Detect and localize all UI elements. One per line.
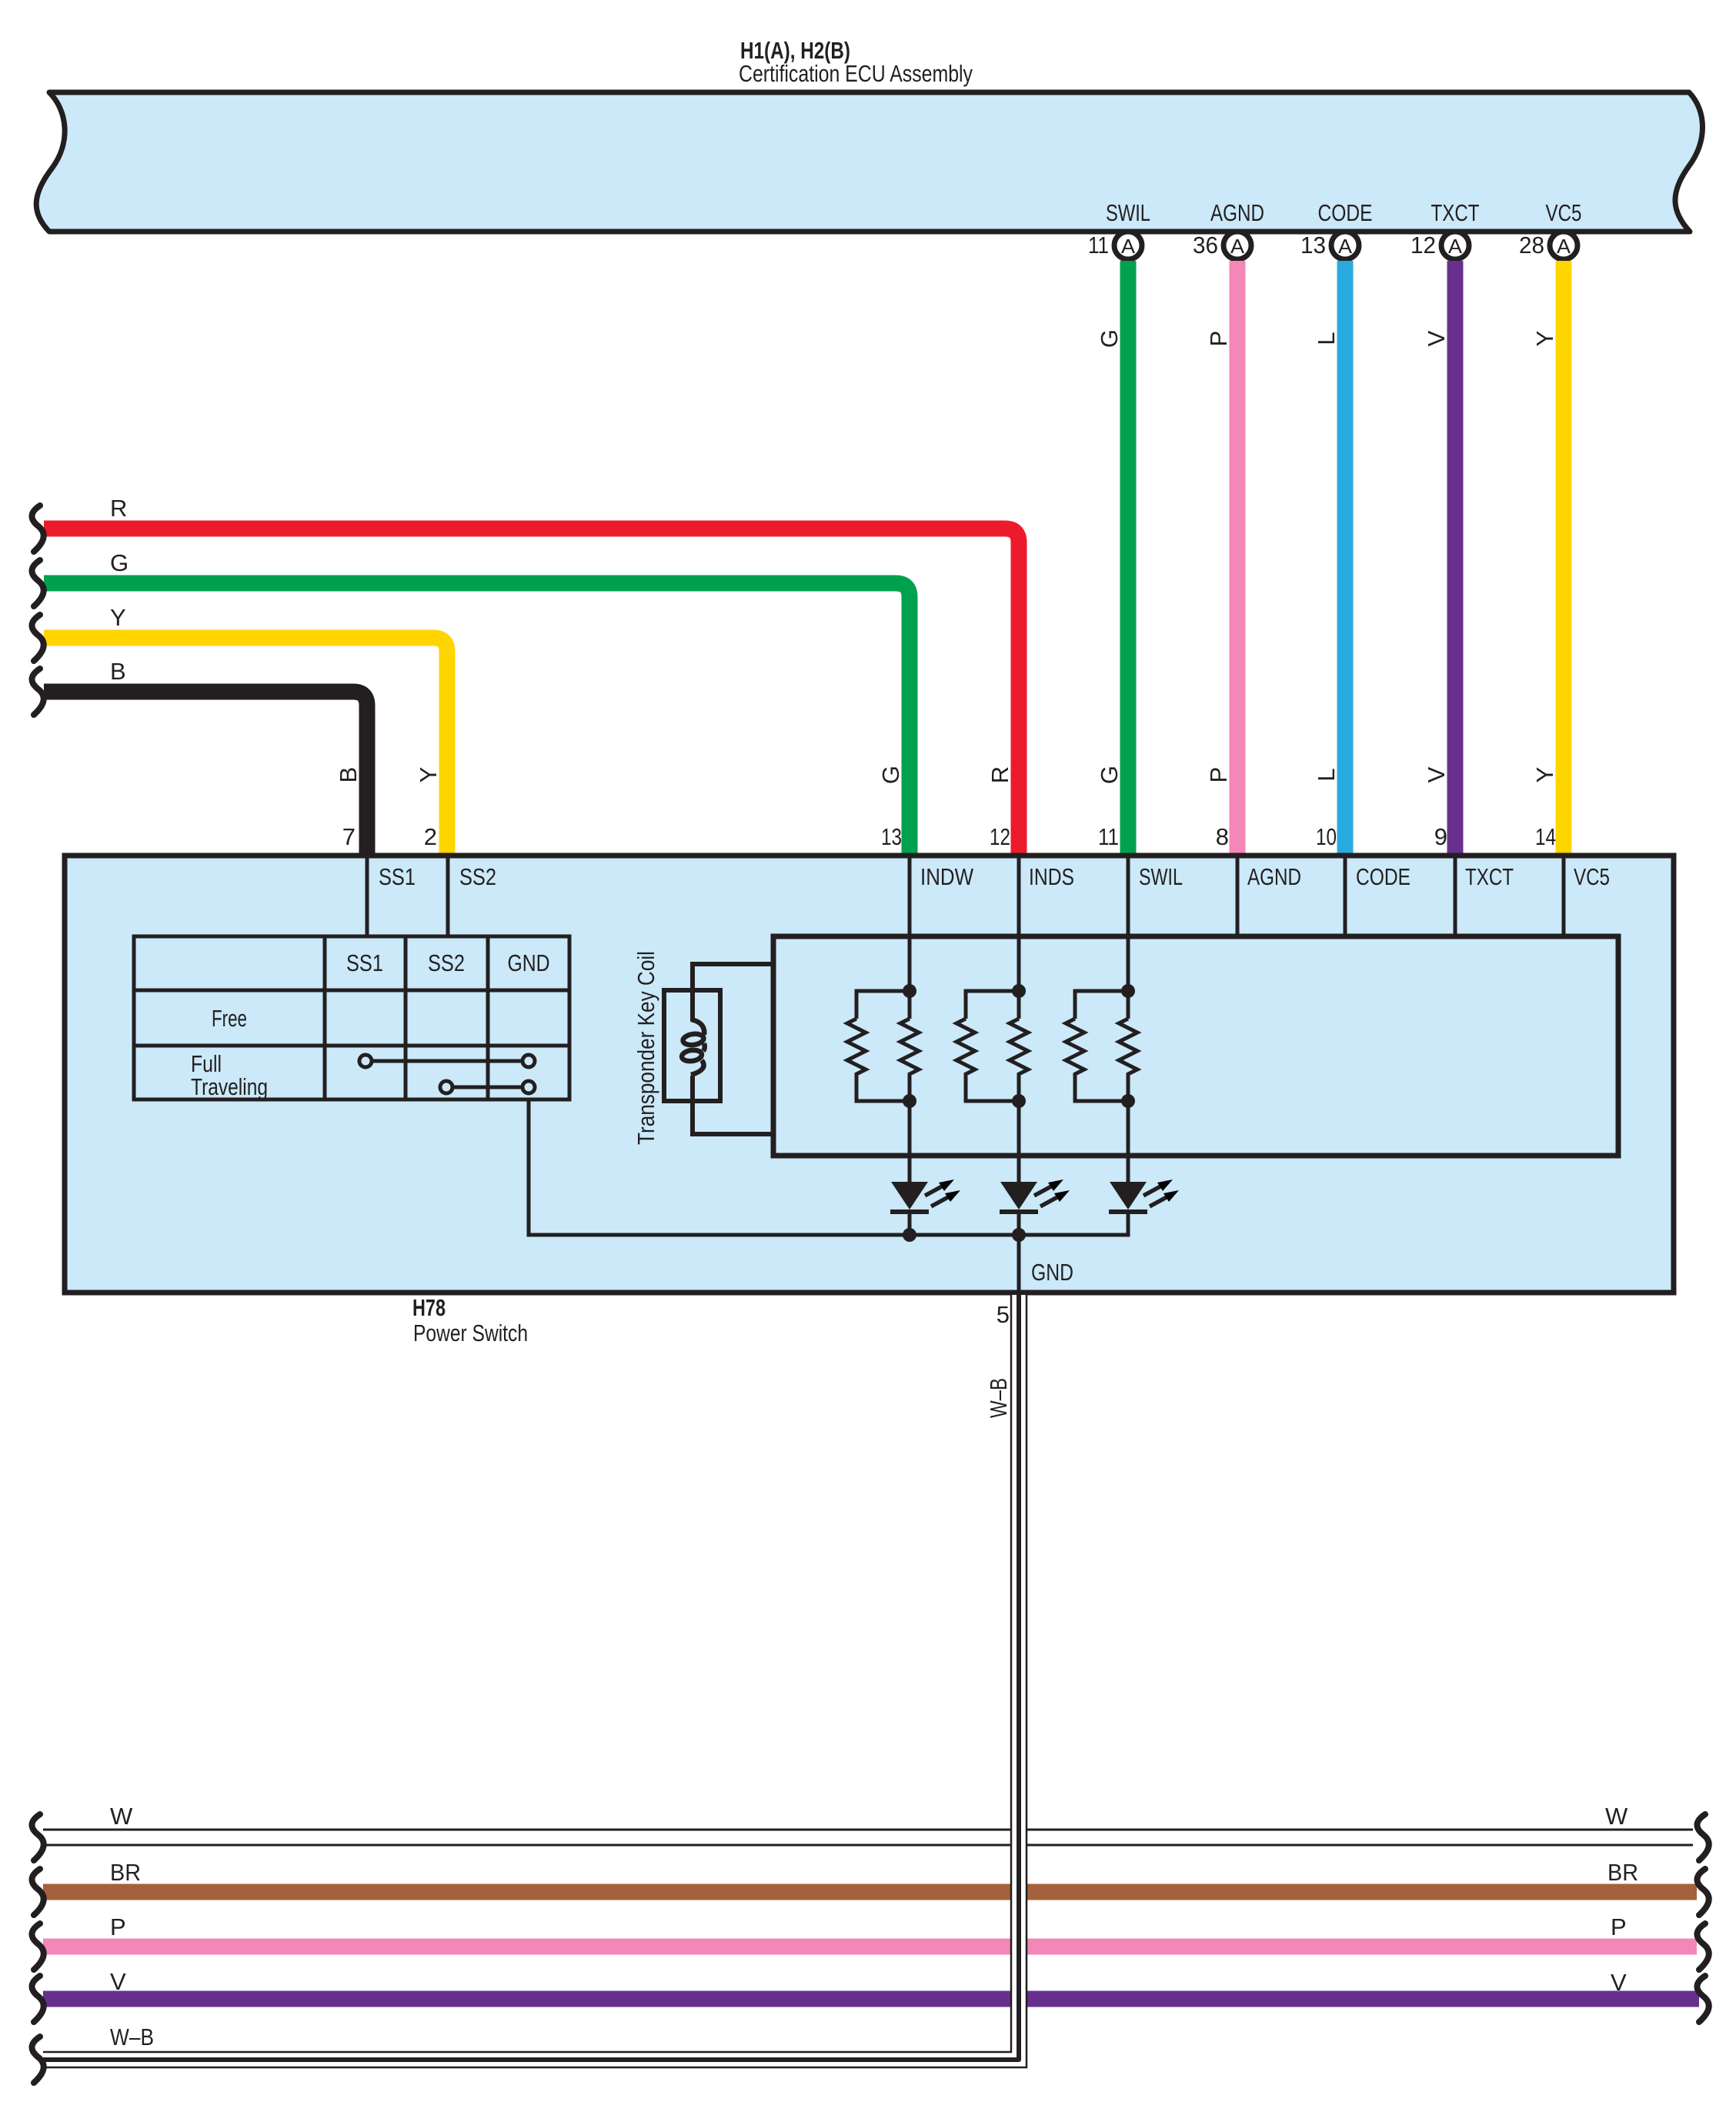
W-B wire outlines (43, 1295, 1011, 2052)
svg-text:Power Switch: Power Switch (413, 1320, 528, 1346)
W-B wire white fill (vertical from pin 5 + horizontal bottom) (43, 1295, 1027, 2067)
bottom wire BR brown (32, 1859, 1708, 1915)
resistor pair SWIL (1066, 991, 1137, 1182)
svg-text:Y: Y (1531, 767, 1558, 783)
svg-text:R: R (987, 766, 1013, 783)
svg-text:V: V (1423, 766, 1450, 782)
svg-text:2: 2 (424, 823, 437, 850)
pin stub CODE (1344, 856, 1347, 936)
pin stub AGND (1236, 856, 1240, 936)
coil loops (681, 1019, 705, 1075)
wire SWIL green vertical (1120, 261, 1137, 859)
svg-text:CODE: CODE (1356, 863, 1410, 890)
svg-text:P: P (110, 1913, 126, 1940)
svg-text:SS1: SS1 (346, 949, 383, 976)
svg-text:13: 13 (881, 823, 902, 850)
svg-text:14: 14 (1535, 823, 1556, 850)
svg-text:11: 11 (1098, 823, 1119, 850)
svg-text:V: V (1423, 330, 1450, 346)
transponder key coil box (664, 990, 720, 1101)
LED INDW (890, 1179, 960, 1235)
pin 36 AGND connector A (1193, 199, 1264, 259)
svg-text:5: 5 (997, 1301, 1010, 1328)
svg-text:R: R (110, 495, 127, 522)
svg-text:W: W (1605, 1803, 1628, 1830)
svg-text:SWIL: SWIL (1139, 863, 1183, 890)
pin 28 VC5 connector A (1519, 199, 1582, 259)
svg-text:7: 7 (342, 823, 356, 850)
wire CODE cyan vertical (1337, 261, 1354, 859)
svg-text:12: 12 (990, 823, 1010, 850)
svg-text:TXCT: TXCT (1465, 863, 1514, 890)
svg-text:W: W (110, 1803, 133, 1830)
transponder key coil wires (693, 964, 773, 1134)
svg-text:Y: Y (110, 604, 126, 631)
svg-text:SS1: SS1 (379, 863, 416, 890)
svg-text:B: B (110, 658, 126, 685)
inner resistor box (773, 936, 1618, 1156)
switch state table (134, 936, 569, 1099)
svg-text:13: 13 (1300, 232, 1326, 259)
svg-text:L: L (1313, 768, 1340, 781)
LED SWIL (1109, 1179, 1179, 1235)
svg-text:Traveling: Traveling (191, 1073, 268, 1100)
bottom wire V violet (32, 1968, 1708, 2022)
svg-text:G: G (877, 766, 904, 784)
svg-text:V: V (110, 1968, 126, 1995)
svg-text:Y: Y (415, 767, 442, 783)
contact SS2-GND (446, 1086, 529, 1089)
pin 11 SWIL connector A (1088, 199, 1150, 259)
svg-text:P: P (1205, 331, 1232, 347)
svg-text:28: 28 (1519, 232, 1544, 259)
bottom wire P pink (32, 1913, 1708, 1970)
svg-text:V: V (1611, 1969, 1627, 1996)
pin stub VC5 (1562, 856, 1566, 936)
svg-text:W–B: W–B (985, 1378, 1012, 1418)
svg-text:SWIL: SWIL (1106, 199, 1150, 226)
pin stub TXCT (1454, 856, 1457, 936)
wire VC5 yellow vertical (1556, 261, 1572, 859)
svg-text:TXCT: TXCT (1431, 199, 1480, 226)
svg-text:H78: H78 (412, 1294, 446, 1321)
svg-text:P: P (1205, 767, 1232, 783)
svg-text:INDW: INDW (920, 863, 974, 890)
svg-text:W–B: W–B (110, 2024, 154, 2050)
contact SS1-GND (359, 1055, 535, 1093)
svg-text:BR: BR (110, 1859, 141, 1886)
junction dot INDW/bus (903, 1228, 916, 1242)
wire AGND pink vertical (1230, 261, 1246, 859)
W-B wire black center stripe (43, 1295, 1019, 2060)
svg-text:GND: GND (508, 949, 550, 976)
junction dot INDS/bus (1012, 1228, 1026, 1242)
svg-text:VC5: VC5 (1574, 863, 1610, 890)
svg-text:L: L (1313, 332, 1340, 345)
svg-text:SS2: SS2 (459, 863, 496, 890)
svg-text:B: B (335, 767, 362, 783)
resistor pair INDW (847, 991, 919, 1182)
wire B black from left to SS1 (44, 692, 367, 859)
svg-text:A: A (1557, 235, 1571, 258)
svg-text:Certification ECU Assembly: Certification ECU Assembly (739, 60, 973, 87)
wire R red from left to INDS (44, 529, 1019, 859)
svg-text:12: 12 (1410, 232, 1436, 259)
GND pin wire (1017, 1235, 1021, 1293)
ECU band H1(A),H2(B) Certification ECU Assembly (36, 92, 1702, 232)
pin stub INDS (1017, 856, 1021, 993)
svg-text:SS2: SS2 (428, 949, 465, 976)
svg-text:A: A (1121, 235, 1136, 258)
svg-text:INDS: INDS (1029, 863, 1074, 890)
pin 13 CODE connector A (1300, 199, 1373, 259)
svg-text:G: G (1096, 329, 1123, 348)
svg-text:CODE: CODE (1318, 199, 1373, 226)
svg-text:Free: Free (212, 1005, 247, 1032)
svg-text:A: A (1338, 235, 1353, 258)
svg-text:AGND: AGND (1210, 199, 1264, 226)
pin stub SS1 (366, 856, 369, 936)
svg-text:11: 11 (1088, 232, 1109, 259)
svg-text:36: 36 (1193, 232, 1218, 259)
svg-text:A: A (1448, 235, 1463, 258)
pin stub SS2 (446, 856, 450, 936)
LED INDS (1000, 1179, 1070, 1235)
svg-text:9: 9 (1434, 823, 1447, 850)
wire G green from left to INDW (44, 583, 910, 859)
svg-text:BR: BR (1607, 1859, 1638, 1886)
power switch box H78 (65, 856, 1674, 1293)
svg-text:8: 8 (1216, 823, 1229, 850)
resistor pair INDS (956, 991, 1028, 1182)
svg-text:VC5: VC5 (1546, 199, 1582, 226)
wire Y yellow from left to SS2 (44, 638, 447, 859)
wire TXCT violet vertical (1447, 261, 1464, 859)
svg-text:GND: GND (1031, 1259, 1073, 1286)
pin 12 TXCT connector A (1410, 199, 1480, 259)
svg-text:G: G (1096, 766, 1123, 784)
svg-text:Transponder Key Coil: Transponder Key Coil (633, 951, 659, 1145)
pin stub SWIL (1127, 856, 1130, 993)
bottom wire W (32, 1803, 1708, 1860)
svg-text:AGND: AGND (1247, 863, 1301, 890)
pin stub INDW (908, 856, 912, 993)
svg-text:P: P (1611, 1913, 1627, 1940)
svg-text:Y: Y (1531, 331, 1558, 347)
svg-text:A: A (1230, 235, 1245, 258)
svg-text:G: G (110, 549, 129, 576)
svg-text:10: 10 (1316, 823, 1337, 850)
ground bus from table GND to LEDs (529, 1099, 1128, 1235)
